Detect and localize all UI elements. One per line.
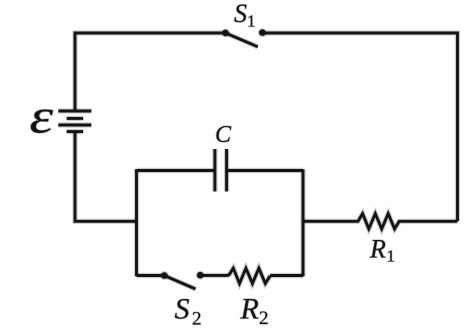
svg-text:ε: ε (30, 89, 54, 144)
wire: top edge left segment and left vertical down to battery top (75, 33, 226, 110)
wire: inner box right edge (300, 169, 305, 276)
capacitor C (two vertical plates) (215, 149, 227, 192)
wire: top edge right segment and right vertical down to R1 level (263, 33, 458, 221)
svg-text:2: 2 (259, 308, 269, 329)
wire: inner box left edge (134, 169, 139, 276)
label S2 (175, 293, 202, 330)
svg-text:C: C (215, 122, 232, 148)
resistor R2 (zigzag) (229, 268, 271, 283)
wire: inner box bottom edge, left of switch S2 (137, 273, 165, 278)
svg-text:R: R (240, 293, 259, 326)
svg-text:R: R (369, 235, 386, 264)
svg-text:S: S (234, 0, 247, 28)
label R2 (240, 293, 269, 330)
svg-text:1: 1 (247, 12, 256, 31)
battery EMF source (two cells: long-short-long-short plates) (58, 111, 91, 132)
resistor R1 (zigzag with leads) (303, 214, 458, 229)
switch S1 (open knife switch with two contact dots and blade) (221, 28, 267, 47)
wire: battery bottom down and right to inner box left edge (75, 133, 137, 222)
svg-text:1: 1 (387, 247, 396, 266)
svg-text:2: 2 (192, 308, 202, 329)
label S1 (234, 0, 256, 31)
wire: inner box top edge, right of capacitor (227, 168, 303, 173)
label R1 (369, 235, 395, 266)
wire: inner box top edge, left of capacitor (137, 168, 215, 173)
svg-text:S: S (175, 293, 190, 326)
wire: inner box bottom edge, right of R2 (270, 273, 303, 278)
switch S2 (open knife switch with two contact dots and blade) (160, 271, 205, 289)
wire: between S2 and R2 (200, 273, 229, 278)
